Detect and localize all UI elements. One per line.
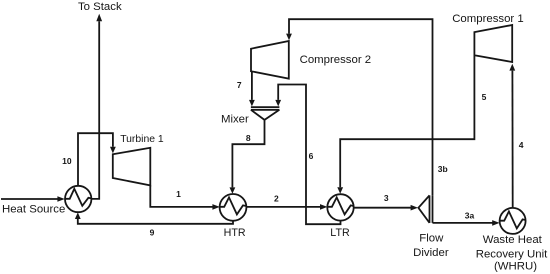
svg-text:Heat Source: Heat Source [2, 204, 65, 216]
label Flow Divider [413, 233, 449, 259]
wire stream 2 [246, 204, 327, 210]
heat exchanger Heat Source [65, 186, 91, 212]
wire stream 3a [433, 220, 500, 226]
wire stream 9 [75, 212, 233, 223]
svg-text:HTR: HTR [224, 227, 246, 239]
svg-text:3: 3 [384, 193, 389, 203]
svg-text:3b: 3b [438, 164, 448, 174]
svg-text:10: 10 [62, 156, 72, 166]
wire stream 7 [249, 71, 255, 106]
wire stream 3 [354, 205, 418, 211]
heat exchanger WHRU [500, 208, 526, 234]
svg-text:Compressor 2: Compressor 2 [300, 54, 372, 66]
turbine Turbine 1 [113, 148, 151, 186]
svg-text:6: 6 [309, 151, 314, 161]
svg-text:9: 9 [150, 227, 155, 237]
wire stream 1 [150, 185, 213, 207]
svg-text:Mixer: Mixer [221, 113, 249, 125]
wire stream 3b [286, 19, 432, 195]
label Waste Heat Recovery Unit (WHRU) [476, 234, 548, 272]
svg-text:Waste Heat: Waste Heat [483, 234, 543, 246]
svg-text:Recovery Unit: Recovery Unit [476, 248, 548, 260]
svg-text:8: 8 [246, 133, 251, 143]
compressor Compressor 1 [474, 25, 512, 62]
wire stream 5 [337, 55, 474, 194]
wire stream 8 [230, 120, 265, 194]
wire heat source inlet [1, 196, 65, 202]
svg-text:5: 5 [482, 92, 487, 102]
svg-text:Turbine 1: Turbine 1 [120, 134, 164, 145]
svg-text:(WHRU): (WHRU) [494, 261, 537, 273]
wire stream 6 [275, 85, 340, 225]
svg-text:LTR: LTR [330, 227, 350, 239]
svg-text:7: 7 [237, 80, 242, 90]
svg-text:Compressor 1: Compressor 1 [452, 13, 524, 25]
svg-text:To Stack: To Stack [78, 1, 122, 13]
svg-text:2: 2 [274, 193, 279, 203]
heat exchanger LTR [327, 194, 353, 220]
wire stream 10 [78, 133, 113, 186]
heat exchanger HTR [220, 194, 247, 221]
svg-text:Flow: Flow [419, 233, 444, 245]
svg-text:3a: 3a [465, 210, 475, 220]
mixer [251, 107, 280, 120]
compressor Compressor 2 [251, 41, 289, 79]
wire flue gas to stack [91, 14, 102, 199]
wire stream 4 [509, 64, 515, 208]
svg-text:Divider: Divider [413, 247, 449, 259]
svg-text:4: 4 [519, 140, 524, 150]
svg-text:1: 1 [176, 189, 181, 199]
flow divider [418, 195, 432, 223]
